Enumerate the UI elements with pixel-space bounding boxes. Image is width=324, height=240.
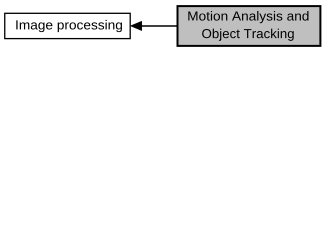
node: Image processing box [5,13,130,38]
label line 1: Motion Analysis and [188,11,308,23]
node: Motion Analysis and Object Tracking box [178,6,321,46]
label line 2: Object Tracking [202,29,294,41]
background [0,0,324,52]
arrowhead pointing left [130,21,142,31]
wire: edge shaft [140,25,178,27]
label: Image processing [16,20,122,32]
